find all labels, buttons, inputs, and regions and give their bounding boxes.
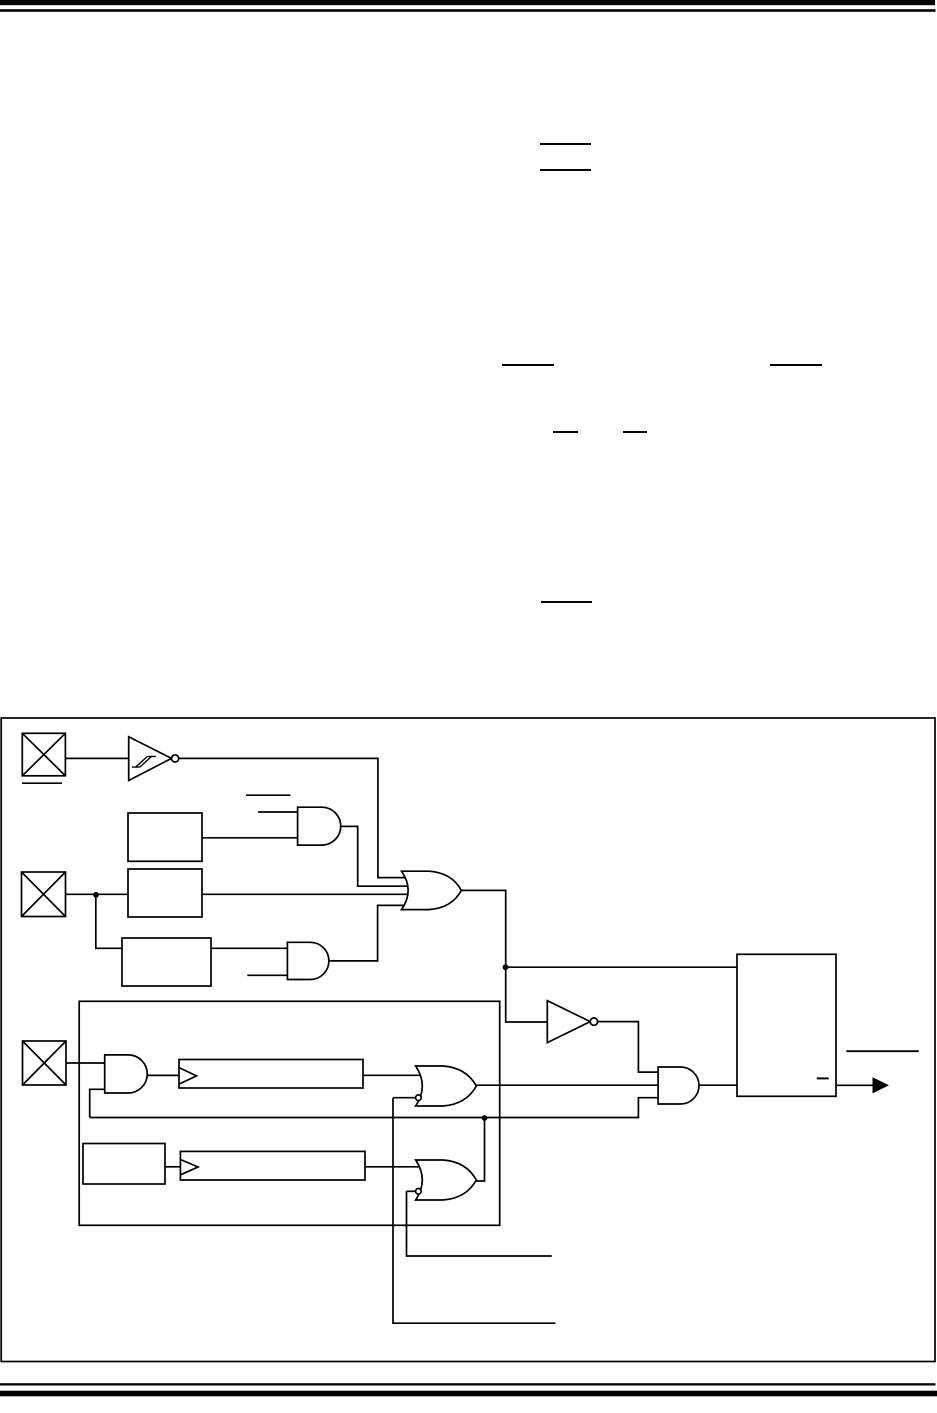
- pad X3: [23, 1041, 67, 1085]
- wire NOR U9 inverted input stub: [407, 1190, 416, 1192]
- pad X1: [22, 733, 65, 776]
- wire pad X3 to AND U4 top input: [66, 1062, 106, 1064]
- wire U3 output to OR U6 input 4: [329, 905, 406, 961]
- nor-gate U8 (OR with inverted input): [416, 1066, 477, 1106]
- wire pad X1 to schmitt U1 input: [65, 757, 128, 759]
- wire node J2 to block U10 input: [506, 966, 737, 968]
- flip-flop FF2: [180, 1151, 365, 1180]
- block B1: [128, 813, 202, 861]
- wire U5 output to block U10: [699, 1084, 737, 1086]
- overline label (body text signal D): [623, 431, 647, 433]
- wire U6 output to node J2 and inverter U7 input: [461, 890, 547, 1022]
- schmitt inverter U1: [129, 737, 179, 781]
- node J1: [93, 892, 99, 898]
- overline label (output signal name): [846, 1050, 919, 1052]
- wire U10 output to arrow: [836, 1084, 874, 1086]
- footer bottom bar: [0, 1391, 937, 1397]
- overline label (body text signal C): [553, 431, 578, 433]
- flip-flop FF1: [179, 1060, 363, 1089]
- node J3: [482, 1115, 488, 1121]
- wire stub AND U3 bottom input: [247, 974, 289, 976]
- wire U9 output to node J3 on feedback net: [476, 1118, 484, 1182]
- wire NOR U8 inverted input stub: [393, 1097, 416, 1099]
- or-gate U6: [402, 871, 462, 909]
- and-gate U4: [105, 1055, 148, 1093]
- and-gate U3: [287, 942, 329, 979]
- and-gate U2: [298, 807, 341, 845]
- overline label (title line 1): [540, 143, 591, 145]
- wire pad X2 to block B2: [66, 893, 129, 895]
- overline label (title line 2): [540, 169, 591, 171]
- wire block B3 to AND U3 top input: [211, 947, 289, 949]
- overline label (body text signal B): [770, 364, 822, 366]
- block U10 (reset generator): [737, 954, 836, 1096]
- wire FF1 output to NOR U8 top input: [363, 1074, 424, 1076]
- wire stub AND U2 top input: [258, 811, 299, 813]
- overline label (body text signal A): [502, 364, 554, 366]
- wire feedback net to AND U5 bottom input: [90, 1098, 659, 1118]
- wire U1 output to OR U6 input 1: [179, 758, 407, 877]
- node J2: [503, 964, 509, 970]
- figure frame: [1, 718, 935, 1362]
- overline label (pad X1 pin name): [22, 782, 62, 784]
- wire NOR U8 inverted input to bottom label: [393, 1098, 556, 1324]
- inverter U7: [547, 1001, 597, 1043]
- block B2: [128, 869, 202, 917]
- wire U7 output to AND U5 top input: [598, 1022, 659, 1073]
- overline label (U10 internal pin): [817, 1077, 829, 1079]
- overline label (body text signal E): [541, 601, 592, 603]
- wire node J1 branch to block B3: [96, 894, 122, 948]
- wire block B4 to flip-flop FF2: [165, 1166, 180, 1168]
- wire block B1 to AND U2 bottom input: [202, 837, 299, 839]
- footer rule: [0, 1383, 936, 1385]
- pad X2: [22, 872, 66, 917]
- header top bar: [0, 0, 935, 5]
- wire NOR U9 inverted input to bottom label: [407, 1191, 552, 1256]
- nor-gate U9 (OR with inverted input): [416, 1160, 477, 1200]
- wire block B2 to OR U6 input 3: [202, 893, 410, 895]
- and-gate U5: [658, 1067, 699, 1104]
- wire AND U4 bottom input feedback loop: [90, 1089, 106, 1117]
- wire FF2 output to NOR U9 top input: [365, 1166, 424, 1168]
- block B4: [83, 1144, 165, 1185]
- wire U4 output to flip-flop FF1: [147, 1074, 179, 1076]
- overline label (AND U2 top input signal): [246, 794, 290, 796]
- wire U2 output to OR U6 input 2: [341, 826, 410, 886]
- output arrowhead: [873, 1077, 890, 1093]
- wire U8 output to AND U5 middle input: [476, 1084, 658, 1086]
- header rule: [0, 9, 936, 12]
- block B3: [122, 938, 211, 986]
- watchdog module boundary box: [79, 1001, 500, 1225]
